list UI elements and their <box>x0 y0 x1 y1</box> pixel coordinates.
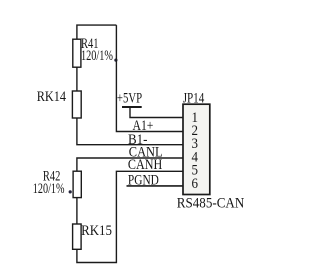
svg-text:CANH: CANH <box>128 157 163 173</box>
svg-text:120/1%: 120/1% <box>33 181 65 197</box>
wire +5VP to pin 1 <box>130 107 183 118</box>
dot after R41 value <box>114 59 117 62</box>
wire R42 to RK15 <box>76 198 78 224</box>
wire right rail from top wire down to A1+ row into pin 2 <box>116 25 183 131</box>
svg-text:6: 6 <box>192 176 199 192</box>
wire CANL row from pin 4 left then down into R42 <box>77 158 183 171</box>
resistor R41 <box>73 39 81 67</box>
wire R41 to RK14 <box>76 67 78 91</box>
svg-text:RS485-CAN: RS485-CAN <box>177 195 245 211</box>
connector JP14 body <box>183 104 210 194</box>
svg-text:JP14: JP14 <box>183 91 205 107</box>
svg-text:120/1%: 120/1% <box>81 48 113 64</box>
wire PGND to pin 6 <box>127 185 184 187</box>
resistor RK15 <box>73 224 82 249</box>
wire RK15 down, bottom run, up right rail to CANH row into pin 5 <box>77 171 183 262</box>
svg-text:RK15: RK15 <box>81 223 112 239</box>
svg-text:+5VP: +5VP <box>117 91 142 107</box>
dot after R42 value <box>69 190 72 193</box>
wire RK14 down to B1- row into pin 3 <box>77 118 183 145</box>
wire top horizontal + left drop into R41 <box>77 25 117 39</box>
svg-text:RK14: RK14 <box>37 89 67 105</box>
resistor R42 <box>73 171 81 197</box>
+5VP bar <box>122 106 142 108</box>
resistor RK14 <box>72 91 81 118</box>
